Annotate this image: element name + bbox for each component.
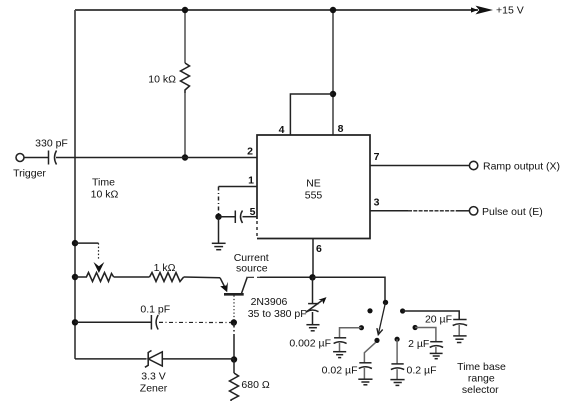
svg-text:0.002 µF: 0.002 µF: [289, 338, 331, 350]
node junction pot left: [72, 274, 78, 280]
wire wiper connection: [75, 242, 99, 244]
svg-text:Time: Time: [92, 177, 115, 189]
wire collector to node (part dashed): [248, 276, 260, 278]
capacitor C7 20 µF: [403, 311, 460, 320]
svg-text:7: 7: [374, 151, 380, 163]
svg-text:10 kΩ: 10 kΩ: [148, 74, 176, 86]
potentiometer Time 10k: [75, 273, 114, 282]
svg-text:NE: NE: [306, 178, 321, 190]
svg-text:6: 6: [316, 243, 322, 255]
svg-text:1 kΩ: 1 kΩ: [154, 262, 176, 274]
svg-text:680 Ω: 680 Ω: [241, 379, 269, 391]
wire base dotted: [233, 296, 235, 323]
wire zener to node: [162, 358, 234, 360]
switch contact A: [367, 308, 372, 313]
terminal Trigger input: [16, 154, 24, 162]
terminal Ramp output: [469, 161, 477, 169]
svg-text:2N3906: 2N3906: [251, 296, 288, 308]
capacitor C9 0.2 µF: [396, 339, 398, 364]
svg-text:10 kΩ: 10 kΩ: [91, 189, 119, 201]
wire pot to R2: [114, 276, 150, 278]
svg-text:1: 1: [248, 175, 254, 187]
wire supply to pin 8: [332, 10, 334, 135]
svg-text:3.3 V: 3.3 V: [141, 370, 166, 382]
wire pin 1 stub: [219, 186, 258, 188]
node junction base/0.1pF: [231, 319, 237, 325]
svg-text:Ramp output (X): Ramp output (X): [483, 160, 560, 172]
capacitor C5 0.002 µF: [340, 328, 362, 338]
switch contact F: [395, 337, 400, 342]
wire trigger to cap: [24, 157, 48, 159]
svg-text:2: 2: [247, 146, 253, 158]
wiper arrowhead: [94, 262, 105, 273]
wire base node down (dash then solid): [233, 323, 235, 338]
svg-text:selector: selector: [462, 384, 499, 396]
op-amp U1 NE 555 box: [257, 135, 370, 239]
ground var cap: [306, 312, 319, 331]
node junction wiper feed: [72, 240, 78, 246]
wire pin 6 down: [312, 239, 314, 278]
switch pole node: [383, 300, 388, 305]
svg-text:3: 3: [374, 197, 380, 209]
svg-text:Pulse out (E): Pulse out (E): [482, 206, 543, 218]
switch contact E: [413, 325, 418, 330]
node junction pin6 / timing: [309, 274, 315, 280]
wire pin1 down to node (dash-dot): [218, 187, 220, 217]
svg-text:Time base: Time base: [457, 361, 506, 373]
node junction pin4/pin8: [330, 91, 336, 97]
capacitor C6 0.02 µF: [364, 343, 375, 363]
node junction supply rail: [330, 7, 336, 13]
svg-text:Trigger: Trigger: [13, 168, 46, 180]
node junction pin5: [215, 214, 221, 220]
capacitor C1 330 pF: [48, 151, 50, 165]
capacitor C8 2 µF: [415, 328, 436, 342]
svg-text:0.02 µF: 0.02 µF: [322, 364, 358, 376]
+15 V supply arrow: [476, 6, 494, 15]
wire cap to base node (dash-dot): [159, 321, 231, 323]
switch contact B: [359, 325, 364, 330]
node junction zener/680: [231, 356, 237, 362]
wire cap to pin 2: [56, 157, 257, 159]
ground pin5: [212, 217, 226, 250]
svg-text:2 µF: 2 µF: [408, 338, 429, 350]
wire pin 7 output: [370, 165, 469, 167]
svg-text:20 µF: 20 µF: [425, 314, 452, 326]
capacitor C2 pin 5 bypass: [219, 216, 236, 218]
node junction bottom of R1: [182, 154, 188, 160]
svg-text:5: 5: [250, 206, 256, 218]
diode D1 zener 3.3V: [148, 352, 162, 366]
resistor R2 1 kΩ: [150, 273, 184, 282]
svg-text:0.1 pF: 0.1 pF: [140, 303, 170, 315]
switch contact D: [400, 308, 405, 313]
wire top +15V rail: [75, 9, 478, 11]
capacitor C3 variable 35-380 pF: [312, 277, 314, 303]
capacitor C4 0.1 pF: [75, 321, 151, 323]
svg-text:35 to 380 pF: 35 to 380 pF: [248, 308, 307, 320]
wire rail to zener: [75, 358, 147, 360]
svg-text:source: source: [236, 263, 268, 275]
switch lever arrow: [378, 302, 385, 334]
wire node to switch pole: [313, 277, 386, 302]
svg-text:555: 555: [305, 190, 323, 202]
wire pin 3 output: [370, 210, 408, 212]
resistor R3 680 Ω: [233, 360, 235, 374]
wire R2 to emitter: [184, 276, 220, 279]
wire pin 4 branch: [290, 94, 333, 135]
wire left vertical rail: [74, 10, 76, 359]
svg-text:+15 V: +15 V: [496, 5, 524, 17]
svg-text:330 pF: 330 pF: [35, 138, 68, 150]
svg-text:Zener: Zener: [140, 383, 168, 395]
transistor Q1 2N3906: [220, 278, 226, 289]
svg-text:8: 8: [338, 123, 344, 135]
terminal Pulse out: [469, 207, 477, 215]
svg-text:0.2 µF: 0.2 µF: [407, 365, 437, 377]
node junction 0.1pF left: [72, 319, 78, 325]
resistor R1 10 kΩ: [184, 10, 186, 158]
node junction top of R1: [182, 7, 188, 13]
svg-text:range: range: [468, 373, 495, 385]
switch contact C: [374, 338, 379, 343]
